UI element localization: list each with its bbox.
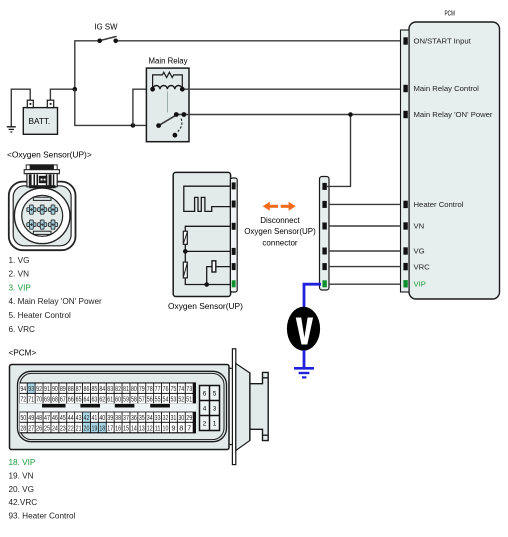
svg-text:26: 26	[36, 423, 42, 432]
svg-text:31: 31	[170, 413, 176, 422]
pin PCM VN	[403, 222, 407, 229]
pin PCM VG	[403, 247, 407, 254]
pin PCM ON/START Input	[403, 37, 407, 44]
pin harness connector y=251.0	[322, 248, 326, 255]
pin PCM Main Relay 'ON' Power	[403, 111, 407, 118]
svg-text:Main Relay: Main Relay	[149, 57, 188, 66]
svg-text:5. Heater Control: 5. Heater Control	[9, 311, 72, 320]
svg-text:52: 52	[178, 395, 184, 404]
svg-text:63: 63	[91, 395, 97, 404]
svg-text:36: 36	[131, 413, 137, 422]
svg-text:48: 48	[36, 413, 42, 422]
link coil-switch	[167, 92, 169, 113]
relay box	[146, 68, 189, 142]
pin PCM VRC	[403, 263, 407, 270]
pin sensor connector y=185.9	[232, 182, 236, 189]
svg-text:50: 50	[20, 413, 26, 422]
svg-text:51: 51	[186, 395, 192, 404]
wire ON Power drop to harness pin1	[327, 115, 351, 187]
svg-text:7: 7	[187, 423, 191, 432]
pin sensor connector y=204.0	[232, 201, 236, 208]
O2 connector body	[9, 182, 76, 251]
pin O2 connector (53.0,209.6)	[48, 205, 57, 214]
pin PCM VIP	[403, 280, 407, 287]
svg-text:41: 41	[91, 413, 97, 422]
svg-text:61: 61	[107, 395, 113, 404]
svg-text:35: 35	[139, 413, 145, 422]
svg-text:91: 91	[44, 384, 50, 393]
svg-text:VN: VN	[414, 222, 425, 231]
svg-text:53: 53	[170, 395, 176, 404]
pin sensor connector y=266.6	[232, 263, 236, 270]
svg-text:ON/START Input: ON/START Input	[414, 37, 472, 46]
svg-text:89: 89	[60, 384, 66, 393]
svg-text:49: 49	[28, 413, 34, 422]
svg-text:22: 22	[68, 423, 74, 432]
pin harness connector y=283.8	[322, 280, 326, 287]
svg-text:77: 77	[155, 384, 161, 393]
svg-text:43: 43	[76, 413, 82, 422]
wire VIP	[329, 283, 401, 285]
svg-text:VIP: VIP	[414, 280, 426, 289]
node relay feed junction	[131, 123, 136, 128]
wire blue voltmeter to ground	[303, 350, 306, 367]
pin sensor connector y=283.8	[232, 280, 236, 287]
pin PCM Heater Control	[403, 201, 407, 208]
svg-text:19. VN: 19. VN	[9, 471, 34, 480]
svg-text:42: 42	[84, 413, 90, 422]
svg-text:75: 75	[170, 384, 176, 393]
svg-text:74: 74	[178, 384, 184, 393]
svg-text:37: 37	[123, 413, 129, 422]
svg-text:3. VIP: 3. VIP	[9, 283, 32, 292]
svg-text:68: 68	[52, 395, 58, 404]
pin O2 connector (31.4,224.6)	[27, 220, 36, 229]
resistor R1	[183, 231, 187, 244]
svg-text:PCM: PCM	[445, 11, 456, 18]
svg-text:Oxygen Sensor(UP): Oxygen Sensor(UP)	[168, 301, 243, 311]
resistor relay (parallel)	[153, 72, 183, 89]
switch IG SW	[97, 36, 118, 43]
node sensor center	[183, 249, 188, 254]
svg-text:3: 3	[213, 406, 217, 413]
svg-text:58: 58	[131, 395, 137, 404]
svg-text:79: 79	[139, 384, 145, 393]
dashed travel arc	[177, 119, 182, 133]
svg-text:56: 56	[147, 395, 153, 404]
svg-text:83: 83	[107, 384, 113, 393]
svg-text:84: 84	[99, 384, 105, 393]
pin harness connector y=204.4	[322, 201, 326, 208]
wire Heater Control	[329, 203, 401, 205]
svg-text:38: 38	[115, 413, 121, 422]
svg-text:62: 62	[99, 395, 105, 404]
PCM box	[409, 22, 500, 299]
svg-text:70: 70	[36, 395, 42, 404]
svg-text:92: 92	[36, 384, 42, 393]
svg-text:69: 69	[44, 395, 50, 404]
svg-text:2. VN: 2. VN	[9, 270, 30, 279]
PCM connector inner face	[18, 371, 227, 441]
svg-text:65: 65	[76, 395, 82, 404]
svg-text:9: 9	[171, 423, 175, 432]
svg-text:78: 78	[147, 384, 153, 393]
pin O2 connector (31.4,209.6)	[27, 205, 36, 214]
svg-text:18: 18	[99, 423, 105, 432]
svg-text:20: 20	[84, 423, 90, 432]
wire Main Relay ON Power: switch to PCM	[176, 114, 400, 116]
svg-text:88: 88	[68, 384, 74, 393]
svg-text:23: 23	[60, 423, 66, 432]
svg-text:24: 24	[52, 423, 58, 432]
pin sensor connector y=226.3	[232, 223, 236, 230]
pin sensor connector y=251.4	[232, 248, 236, 255]
wire Main Relay Control: coil to PCM	[182, 88, 400, 90]
svg-text:IG SW: IG SW	[95, 23, 119, 32]
key slots band	[19, 403, 196, 411]
svg-text:25: 25	[44, 423, 50, 432]
wire VRC	[329, 266, 401, 268]
node ON power junction	[348, 112, 353, 117]
pin PCM Main Relay Control	[403, 85, 407, 92]
svg-text:54: 54	[163, 395, 169, 404]
pin O2 connector (42.2,209.6)	[38, 205, 47, 214]
svg-text:1: 1	[213, 421, 217, 428]
svg-text:Main Relay Control: Main Relay Control	[414, 84, 480, 93]
svg-text:Main Relay 'ON' Power: Main Relay 'ON' Power	[414, 110, 493, 119]
switch relay	[159, 115, 177, 126]
wire junction down to lower feed	[75, 89, 159, 125]
svg-text:12: 12	[147, 423, 153, 432]
svg-text:6: 6	[203, 391, 207, 398]
pin O2 connector (53.0,224.6)	[48, 220, 57, 229]
pin harness connector y=266.6	[322, 263, 326, 270]
battery BATT.	[23, 100, 57, 134]
svg-text:<Oxygen Sensor(UP)>: <Oxygen Sensor(UP)>	[7, 150, 92, 160]
resistor R2	[183, 262, 187, 278]
svg-text:39: 39	[107, 413, 113, 422]
svg-text:55: 55	[155, 395, 161, 404]
svg-text:46: 46	[52, 413, 58, 422]
signal waveform	[184, 186, 231, 211]
svg-text:45: 45	[60, 413, 66, 422]
svg-text:94: 94	[20, 384, 26, 393]
svg-text:14: 14	[131, 423, 137, 432]
svg-text:33: 33	[155, 413, 161, 422]
sensor connector strip	[230, 178, 237, 292]
pin harness connector y=186.4	[322, 183, 326, 190]
svg-text:42.VRC: 42.VRC	[9, 498, 38, 507]
svg-text:19: 19	[91, 423, 97, 432]
PCM connector outer body	[10, 365, 230, 450]
svg-text:32: 32	[163, 413, 169, 422]
svg-text:82: 82	[115, 384, 121, 393]
svg-text:VG: VG	[414, 247, 425, 256]
svg-text:73: 73	[186, 384, 192, 393]
svg-text:80: 80	[131, 384, 137, 393]
arrow left orange	[263, 202, 278, 211]
svg-text:66: 66	[68, 395, 74, 404]
svg-text:71: 71	[28, 395, 34, 404]
svg-text:85: 85	[91, 384, 97, 393]
svg-text:5: 5	[213, 391, 217, 398]
heater element box	[212, 261, 216, 272]
svg-text:57: 57	[139, 395, 145, 404]
wire VN	[329, 225, 401, 227]
svg-text:81: 81	[123, 384, 129, 393]
wire ON/START: IG SW to PCM	[116, 40, 401, 42]
svg-text:4: 4	[203, 406, 207, 413]
svg-text:13: 13	[139, 423, 145, 432]
svg-text:21: 21	[76, 423, 82, 432]
wire node to pin4	[185, 250, 230, 252]
connector side profile	[229, 349, 268, 465]
svg-text:87: 87	[76, 384, 82, 393]
voltmeter V	[287, 307, 320, 351]
wire bottom node up to element	[207, 267, 231, 285]
wire R2 to bottom	[185, 278, 230, 285]
svg-text:93: 93	[28, 384, 34, 393]
wire battery right terminal to junction	[50, 89, 74, 100]
svg-text:72: 72	[20, 395, 26, 404]
wire battery left terminal to ground	[11, 89, 30, 127]
pin O2 connector (42.2,224.6)	[38, 220, 47, 229]
wire node to resistor R2	[184, 251, 186, 262]
wire blue VIP to voltmeter	[304, 284, 321, 307]
svg-text:86: 86	[84, 384, 90, 393]
svg-text:4. Main Relay 'ON' Power: 4. Main Relay 'ON' Power	[9, 297, 102, 306]
svg-text:28: 28	[20, 423, 26, 432]
svg-text:8: 8	[179, 423, 183, 432]
O2 connector top tab	[24, 164, 59, 188]
svg-text:Oxygen Sensor(UP): Oxygen Sensor(UP)	[244, 227, 316, 236]
svg-text:18. VIP: 18. VIP	[9, 458, 36, 467]
ground battery	[7, 127, 16, 132]
svg-text:27: 27	[28, 423, 34, 432]
node sensor bottom	[204, 282, 209, 287]
svg-text:VRC: VRC	[414, 262, 431, 271]
coil relay	[153, 85, 183, 89]
pin grid 6..1	[200, 386, 220, 431]
svg-text:connector: connector	[262, 238, 297, 247]
svg-text:29: 29	[186, 413, 192, 422]
svg-text:59: 59	[123, 395, 129, 404]
ground voltmeter blue	[294, 368, 314, 377]
harness connector strip	[320, 177, 330, 291]
node battery junction	[73, 87, 78, 92]
svg-text:Disconnect: Disconnect	[260, 216, 300, 225]
svg-text:20. VG: 20. VG	[9, 485, 35, 494]
svg-text:34: 34	[147, 413, 153, 422]
svg-text:2: 2	[203, 421, 207, 428]
svg-text:90: 90	[52, 384, 58, 393]
wire R1 to node	[184, 244, 186, 251]
svg-text:30: 30	[178, 413, 184, 422]
svg-text:40: 40	[99, 413, 105, 422]
svg-text:17: 17	[107, 423, 113, 432]
svg-text:15: 15	[123, 423, 129, 432]
svg-text:<PCM>: <PCM>	[9, 349, 37, 358]
pin harness connector y=226.0	[322, 223, 326, 230]
pin grid cells	[20, 384, 193, 433]
PCM connector strip	[401, 30, 410, 292]
svg-text:93. Heater Control: 93. Heater Control	[9, 512, 76, 521]
oxygen sensor box	[173, 172, 230, 296]
svg-text:BATT.: BATT.	[29, 117, 51, 126]
svg-text:6. VRC: 6. VRC	[9, 325, 35, 334]
wire feed up to relay coil	[133, 89, 153, 125]
svg-text:44: 44	[68, 413, 74, 422]
svg-text:11: 11	[155, 423, 161, 432]
svg-text:47: 47	[44, 413, 50, 422]
svg-text:16: 16	[115, 423, 121, 432]
svg-text:1. VG: 1. VG	[9, 256, 30, 265]
svg-text:Heater Control: Heater Control	[414, 200, 464, 209]
arrow right orange	[281, 202, 296, 211]
wire IG SW left to battery junction vertical	[75, 41, 100, 89]
svg-text:67: 67	[60, 395, 66, 404]
svg-text:10: 10	[163, 423, 169, 432]
pin grid block	[19, 382, 196, 433]
svg-text:64: 64	[84, 395, 90, 404]
svg-text:60: 60	[115, 395, 121, 404]
wire VG	[329, 250, 401, 252]
svg-text:76: 76	[163, 384, 169, 393]
wire pin3 to resistor R1	[185, 226, 230, 231]
